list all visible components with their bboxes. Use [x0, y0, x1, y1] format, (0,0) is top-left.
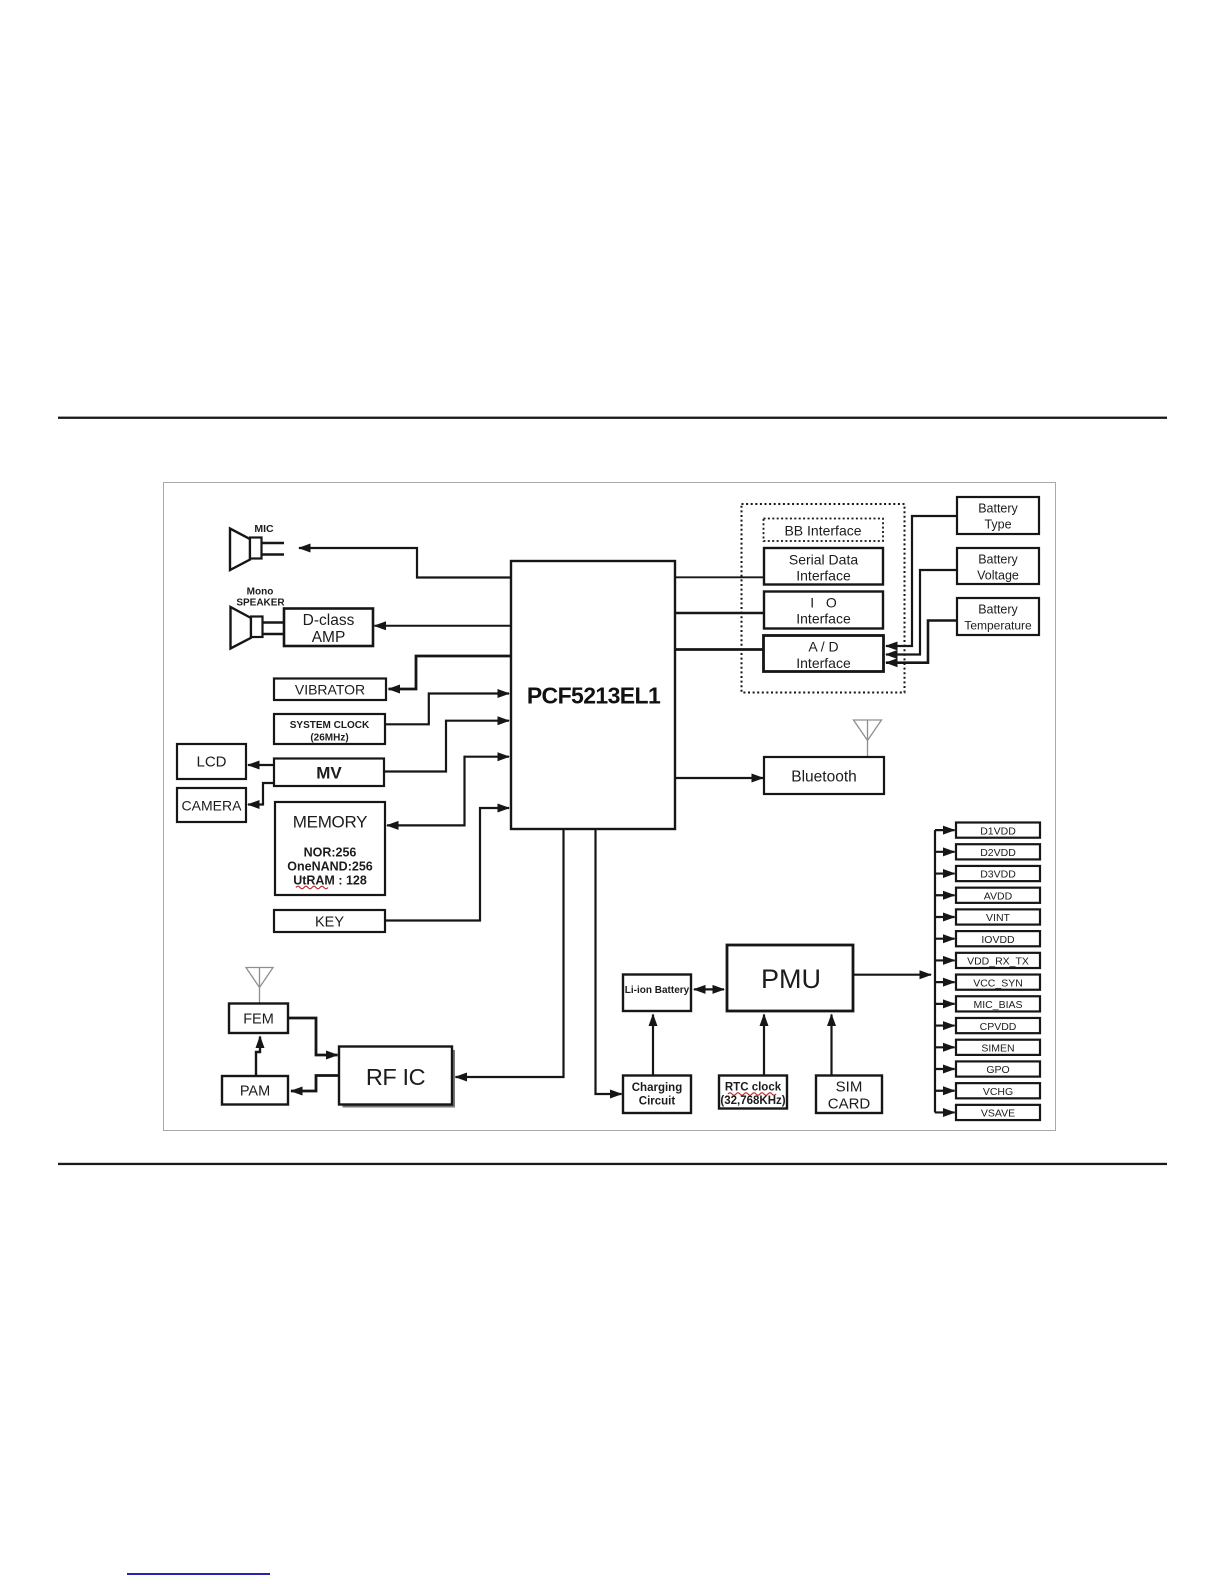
spellcheck squiggle under RTC clock [728, 1093, 776, 1096]
svg-text:VCHG: VCHG [983, 1086, 1013, 1098]
block KEY box [274, 910, 385, 932]
block Charging Circuit box [623, 1076, 691, 1114]
svg-text:AMP: AMP [312, 629, 346, 646]
svg-text:Interface: Interface [796, 568, 851, 584]
wire Li-ion Battery to PMU bidirectional [694, 988, 724, 990]
svg-text:D2VDD: D2VDD [980, 847, 1016, 859]
wire bus to SIMEN [935, 1046, 955, 1048]
svg-text:Battery: Battery [978, 502, 1018, 516]
wire MV to U1 [384, 721, 509, 772]
wire MEMORY bus vertical [387, 756, 465, 826]
svg-text:Type: Type [984, 518, 1011, 532]
svg-text:CARD: CARD [828, 1096, 871, 1113]
svg-text:AVDD: AVDD [984, 890, 1013, 902]
block FEM box [229, 1004, 288, 1034]
svg-text:LCD: LCD [196, 754, 226, 771]
svg-text:(32,768KHz): (32,768KHz) [720, 1095, 785, 1107]
wire U1 to A D Interface [675, 648, 764, 651]
antenna Bluetooth [854, 720, 882, 757]
block LCD box [177, 744, 246, 779]
wire speaker upper lead [263, 621, 285, 624]
wire bus to GPO [935, 1068, 955, 1070]
power rail bus vertical [934, 830, 936, 1112]
wire bus to AVDD [935, 894, 955, 896]
microphone MIC symbol body [250, 538, 262, 559]
svg-text:D1VDD: D1VDD [980, 825, 1016, 837]
wire Charging Circuit to Li-ion Battery [652, 1015, 654, 1076]
wire U1 to I O Interface [675, 612, 764, 614]
rail VINT box [956, 909, 1040, 924]
block Battery Voltage box [957, 548, 1039, 584]
svg-text:RTC clock: RTC clock [725, 1082, 782, 1094]
svg-text:IOVDD: IOVDD [981, 934, 1015, 946]
block SYSTEM CLOCK box [274, 714, 385, 744]
rail VCC_SYN box [956, 975, 1040, 990]
wire bus to IOVDD [935, 938, 955, 940]
svg-text:OneNAND:256: OneNAND:256 [287, 860, 372, 874]
block RF IC box [339, 1047, 452, 1105]
svg-text:VIBRATOR: VIBRATOR [295, 682, 365, 698]
svg-text:PAM: PAM [240, 1084, 270, 1100]
svg-text:VDD_RX_TX: VDD_RX_TX [967, 956, 1029, 968]
rail VDD_RX_TX box [956, 953, 1040, 968]
wire U1 to D-class AMP [375, 625, 512, 627]
svg-text:PCF5213EL1: PCF5213EL1 [527, 683, 661, 709]
rail CPVDD box [956, 1018, 1040, 1033]
speaker Mono SPEAKER body [251, 617, 263, 638]
svg-text:SIMEN: SIMEN [981, 1043, 1014, 1055]
svg-text:VINT: VINT [986, 912, 1011, 924]
svg-text:MEMORY: MEMORY [293, 813, 367, 832]
wire MEMORY branch to U1 [465, 756, 510, 758]
rail IOVDD box [956, 931, 1040, 946]
block Serial Data Interface box [764, 548, 883, 585]
block PMU box [727, 945, 853, 1011]
svg-text:UtRAM : 128: UtRAM : 128 [293, 874, 367, 888]
svg-text:GPO: GPO [986, 1064, 1009, 1076]
rail VCHG box [956, 1083, 1040, 1098]
svg-text:BB Interface: BB Interface [784, 523, 861, 539]
diagram outer border [164, 483, 1056, 1131]
wire SIM CARD to PMU [830, 1015, 832, 1076]
wire bus to VCC_SYN [935, 981, 955, 983]
amplifier D-class AMP box [284, 609, 373, 647]
svg-text:CAMERA: CAMERA [182, 798, 243, 814]
processor U1 PCF5213EL1 box [511, 561, 675, 829]
block A D Interface box [764, 636, 884, 672]
spellcheck squiggle under UtRAM [296, 886, 328, 889]
wire bus to VCHG [935, 1090, 955, 1092]
svg-text:Serial Data: Serial Data [789, 552, 858, 568]
wire Battery Temperature to A D Interface [886, 621, 957, 663]
microphone MIC terminal upper [262, 542, 285, 544]
wire KEY to U1 [385, 808, 509, 921]
svg-text:MIC_BIAS: MIC_BIAS [973, 999, 1022, 1011]
bottom horizontal rule [58, 1163, 1167, 1165]
wire bus to VINT [935, 916, 955, 918]
svg-text:Bluetooth: Bluetooth [791, 769, 857, 786]
wire PMU to power rail bus [853, 974, 931, 976]
svg-text:Battery: Battery [978, 603, 1018, 617]
block RTC clock box [719, 1076, 787, 1109]
rail D3VDD box [956, 866, 1040, 881]
svg-text:RF IC: RF IC [366, 1064, 426, 1090]
svg-text:(26MHz): (26MHz) [310, 733, 348, 744]
wire U1 to MIC [299, 548, 511, 578]
rail VSAVE box [956, 1105, 1040, 1120]
block Battery Type box [957, 497, 1039, 534]
block CAMERA box [177, 788, 246, 822]
rail AVDD box [956, 888, 1040, 903]
microphone MIC terminal lower [262, 553, 285, 555]
block Bluetooth box [764, 757, 884, 794]
svg-text:VCC_SYN: VCC_SYN [973, 977, 1023, 989]
svg-text:Mono: Mono [247, 587, 274, 598]
block MV box [274, 759, 384, 787]
wire PAM to FEM [256, 1037, 260, 1077]
svg-text:NOR:256: NOR:256 [304, 846, 357, 860]
block BB Interface title box [764, 519, 884, 542]
speaker Mono SPEAKER horn [231, 607, 252, 649]
antenna RF main [246, 968, 273, 1004]
block MEMORY box [275, 802, 385, 895]
blue hyperlink underline [127, 1573, 270, 1575]
rail D2VDD box [956, 844, 1040, 859]
block Battery Temperature box [957, 598, 1039, 635]
wire U1 to RF IC [456, 829, 564, 1077]
rail SIMEN box [956, 1040, 1040, 1055]
wire bus to MIC_BIAS [935, 1003, 955, 1005]
wire Battery Voltage to A D Interface [886, 570, 957, 655]
svg-text:SIM: SIM [836, 1079, 863, 1096]
block PAM box [222, 1076, 288, 1105]
wire MV to LCD [248, 764, 274, 766]
wire bus to VDD_RX_TX [935, 959, 955, 961]
wire bus to CPVDD [935, 1024, 955, 1026]
wire MV to CAMERA [248, 783, 274, 805]
svg-text:VSAVE: VSAVE [981, 1108, 1015, 1120]
svg-text:MV: MV [316, 764, 342, 783]
wire RTC clock to PMU [763, 1015, 765, 1076]
svg-text:Interface: Interface [796, 611, 851, 627]
svg-text:Circuit: Circuit [639, 1096, 676, 1108]
wire RF IC to PAM [291, 1076, 339, 1092]
svg-text:A / D: A / D [808, 639, 838, 655]
wire U1 to VIBRATOR [389, 656, 512, 689]
svg-text:SPEAKER: SPEAKER [236, 598, 285, 609]
block VIBRATOR box [274, 679, 386, 701]
wire U1 to Serial Data Interface [675, 576, 764, 578]
svg-text:KEY: KEY [315, 915, 344, 931]
block I O Interface box [764, 592, 883, 629]
block RF IC shadow [343, 1050, 456, 1108]
svg-text:Voltage: Voltage [977, 569, 1019, 583]
svg-text:Interface: Interface [796, 655, 851, 671]
rail GPO box [956, 1061, 1040, 1076]
wire U1 to Bluetooth [675, 777, 763, 779]
svg-text:D3VDD: D3VDD [980, 869, 1016, 881]
wire speaker lower lead [263, 633, 285, 636]
svg-text:SYSTEM CLOCK: SYSTEM CLOCK [290, 720, 370, 731]
block SIM CARD box [816, 1076, 882, 1114]
top horizontal rule [58, 417, 1167, 419]
group BB Interface dashed box [742, 504, 905, 693]
wire bus to D2VDD [935, 851, 955, 853]
microphone MIC symbol horn [230, 529, 250, 571]
svg-text:Charging: Charging [632, 1082, 682, 1094]
wire SYSTEM CLOCK to U1 [385, 694, 509, 725]
svg-text:FEM: FEM [243, 1012, 274, 1028]
block Li-ion Battery box [623, 975, 691, 1012]
rail MIC_BIAS box [956, 996, 1040, 1011]
wire Battery Type to A D Interface [886, 516, 957, 646]
wire FEM to RF IC [288, 1018, 338, 1055]
svg-text:I O: I O [810, 595, 837, 611]
wire bus to D3VDD [935, 872, 955, 874]
svg-text:Li-ion Battery: Li-ion Battery [625, 985, 690, 996]
wire bus to D1VDD [935, 829, 955, 831]
rail D1VDD box [956, 823, 1040, 838]
wire bus to VSAVE [935, 1111, 955, 1113]
svg-text:PMU: PMU [761, 964, 821, 994]
svg-text:Temperature: Temperature [964, 619, 1032, 633]
svg-text:D-class: D-class [303, 612, 355, 629]
wire U1 to Charging Circuit [596, 829, 622, 1094]
svg-text:CPVDD: CPVDD [980, 1021, 1017, 1033]
svg-text:Battery: Battery [978, 553, 1018, 567]
svg-text:MIC: MIC [254, 523, 274, 535]
